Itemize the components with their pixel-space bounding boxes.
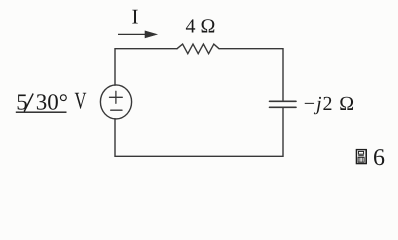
current arrow I (118, 31, 157, 38)
svg-text:5: 5 (16, 90, 28, 115)
svg-text:4 Ω: 4 Ω (186, 16, 216, 38)
label 5 angle 30 deg V (16, 89, 87, 115)
voltage source minus sign (111, 109, 122, 111)
figure caption: character 圖 drawn as strokes (356, 149, 366, 164)
wire right-bottom segment (115, 108, 283, 156)
svg-text:I: I (132, 5, 139, 29)
capacitor C (-j2 ohm) plates (270, 101, 297, 107)
svg-text:V: V (75, 89, 87, 115)
svg-text:6: 6 (373, 145, 385, 171)
svg-text:30°: 30° (36, 90, 68, 115)
voltage source plus sign (110, 91, 123, 103)
voltage source V1 circle (100, 85, 131, 119)
resistor R (4 ohm) (177, 44, 219, 54)
wire top-right segment (220, 49, 284, 101)
wire top-left segment (115, 49, 177, 85)
svg-text:−j2 Ω: −j2 Ω (304, 93, 355, 115)
